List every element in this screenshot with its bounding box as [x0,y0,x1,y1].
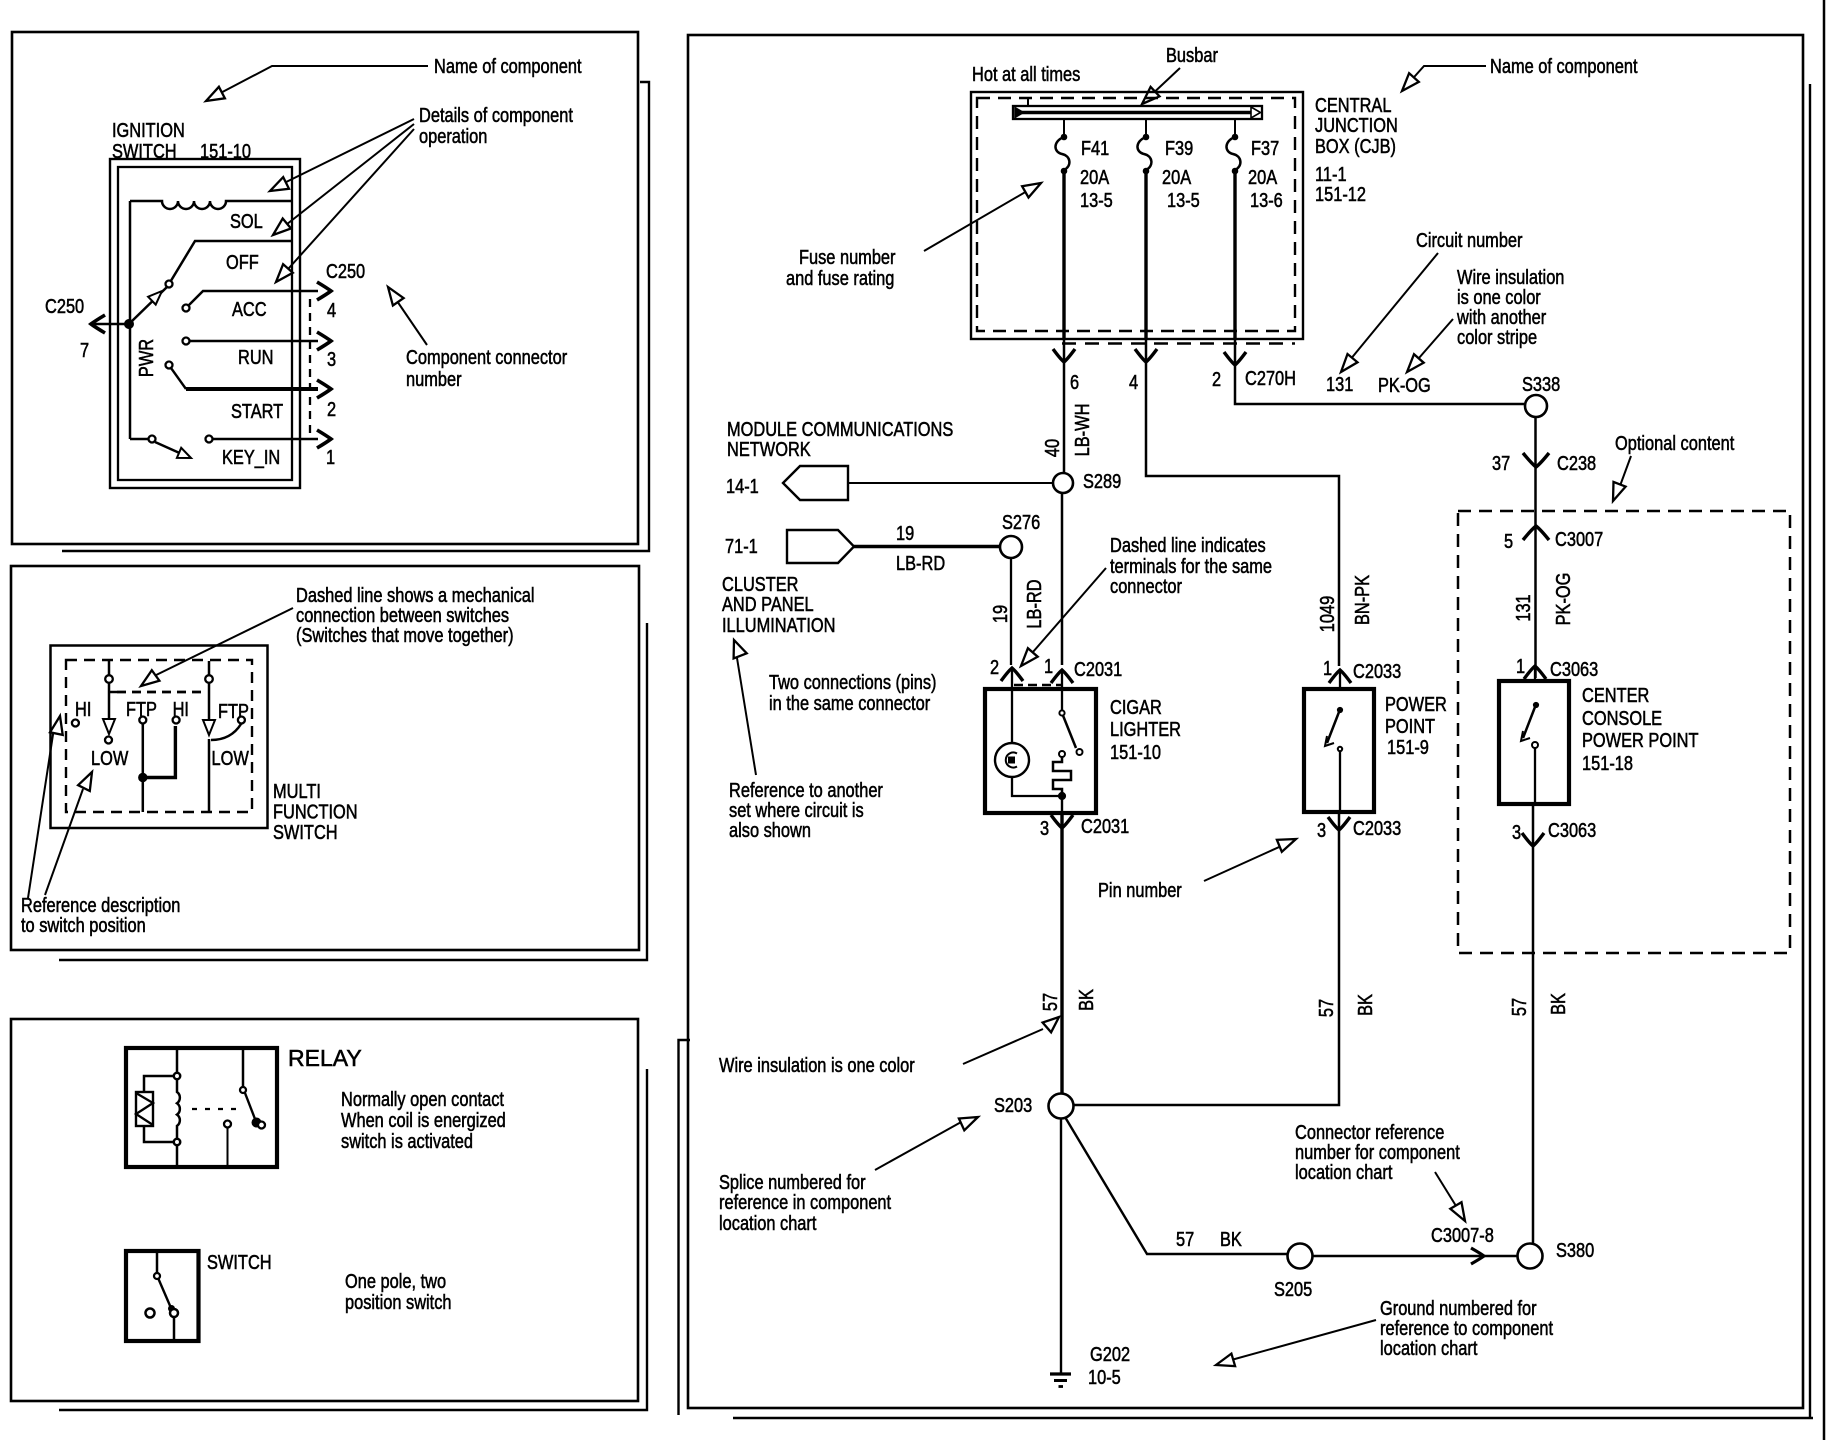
svg-text:Wire insulation is one color: Wire insulation is one color [719,1053,915,1076]
switch 2 pivot contact [205,675,213,683]
connector C250 dashed boundary [309,299,311,435]
switch 2 wiper [208,683,211,722]
svg-text:BN-PK: BN-PK [1350,575,1373,625]
svg-text:37: 37 [1492,451,1510,474]
busbar right arrow [1251,107,1261,118]
thick link wire to HI2 [143,726,176,778]
ground G202 symbol [1050,1372,1071,1375]
svg-text:OFF: OFF [226,250,259,273]
wire: F37 output inside CJB [1233,171,1236,339]
svg-text:S338: S338 [1522,372,1560,395]
svg-text:and fuse rating: and fuse rating [786,266,894,289]
splice S289 [1053,473,1073,493]
wire: KEY_IN row left [130,438,149,441]
svg-text:location chart: location chart [1295,1160,1392,1183]
contact FTP 1 [139,717,146,724]
svg-text:PWR: PWR [134,339,157,377]
relay switch common wire [242,1048,245,1087]
svg-text:G202: G202 [1090,1342,1130,1365]
svg-text:Fuse number: Fuse number [799,245,896,268]
svg-text:2: 2 [1212,367,1221,390]
busbar bar [1013,106,1262,119]
svg-text:IGNITION: IGNITION [112,118,185,141]
svg-text:JUNCTION: JUNCTION [1315,113,1398,136]
svg-text:BK: BK [1220,1227,1242,1250]
leader to C250 connector [397,301,427,345]
connector C2031 pin3 arrow [1051,815,1073,828]
relay fixed contact right [258,1122,265,1129]
svg-text:S205: S205 [1274,1277,1312,1300]
wire pin2 into cigar lighter [1011,670,1013,689]
legend box 1 frame [12,32,638,544]
START row exit arrow [317,380,331,398]
wiper arrow [148,291,162,305]
junction node cigar [1058,792,1065,799]
svg-text:C250: C250 [326,259,365,282]
leader to LOW [45,789,83,895]
fuse F37 [1234,119,1236,134]
leader to SOL [274,119,414,188]
relay NO contact lead [227,1128,229,1167]
wire: F41 output inside CJB [1062,171,1065,339]
wire: START wiper [171,368,186,389]
svg-text:1: 1 [326,445,335,468]
svg-text:SOL: SOL [230,209,263,232]
contact START [166,362,173,369]
junction node LOW [139,773,147,781]
leader to fuse [924,187,1034,251]
svg-text:10-5: 10-5 [1088,1365,1121,1388]
legend box 1 shadow page [62,82,649,551]
leader to color stripe PK-OG [1412,319,1453,366]
svg-text:C250: C250 [45,294,84,317]
wire pin1 into console power point [1534,668,1536,681]
svg-text:1: 1 [1323,656,1332,679]
contact RUN [183,338,190,345]
cigar switch wire [1061,689,1063,710]
connector arrow wire2 exit [1135,349,1157,362]
cigar switch wiper [1063,716,1076,749]
leader to ground [1224,1320,1376,1362]
svg-text:KEY_IN: KEY_IN [222,445,280,469]
svg-text:SWITCH: SWITCH [273,820,338,843]
wire: circuit 57 BK cigar to S203 (thick) [1060,815,1063,1093]
svg-text:BK: BK [1546,993,1569,1015]
svg-text:RUN: RUN [238,345,273,368]
svg-text:Two connections (pins): Two connections (pins) [769,670,937,693]
svg-text:location chart: location chart [1380,1336,1477,1359]
switch 1 wiper arrow [103,719,115,734]
wire: ACC row [189,291,318,305]
console switch [1533,702,1538,707]
svg-text:connector: connector [1110,574,1182,597]
svg-text:POINT: POINT [1385,714,1435,737]
svg-text:PK-OG: PK-OG [1551,573,1574,626]
splice S276 [1000,536,1022,558]
svg-text:3: 3 [1040,816,1049,839]
svg-text:Circuit number: Circuit number [1416,228,1523,251]
svg-text:131: 131 [1326,372,1353,395]
connector C2033 pin3 arrow [1328,817,1350,830]
multifunction switch dashed boundary [66,660,252,812]
cigar lighter lamp [995,743,1029,777]
leader to busbar [1147,68,1180,99]
leader from wire insulation text [963,1029,1043,1064]
svg-text:57: 57 [1314,999,1337,1017]
svg-text:in the same connector: in the same connector [769,691,930,714]
connector C3063 pin1 arrow [1524,666,1546,679]
connector C2031 pin2 arrow [1001,668,1023,681]
relay K1 box [126,1048,277,1167]
svg-text:151-12: 151-12 [1315,182,1366,205]
wire pin1 into power point [1339,672,1341,689]
connector C3007-8 arrow [1471,1248,1484,1264]
svg-text:13-5: 13-5 [1167,188,1200,211]
svg-text:reference in component: reference in component [719,1190,891,1213]
central junction box outline [971,92,1303,339]
wire: S205 to S380 via C3007-8 [1313,1255,1518,1258]
wire below switch 2 [208,739,211,812]
contact KEY_IN left [149,436,156,443]
connector arrow wire1 exit [1053,349,1075,362]
svg-text:BK: BK [1074,989,1097,1011]
svg-text:HI: HI [75,697,91,720]
svg-text:57: 57 [1507,998,1530,1016]
svg-text:Component connector: Component connector [406,345,567,368]
svg-text:5: 5 [1504,529,1513,552]
switch 2 wiper arrow [203,720,215,735]
relay switch wiper [245,1093,255,1119]
leader line to component name [211,66,428,98]
wire: S289 to C2031 pin1 [1061,493,1064,665]
ignition switch inner box [118,167,292,480]
svg-text:S276: S276 [1002,510,1040,533]
wire junction to pin3 [1061,796,1063,813]
svg-text:151-9: 151-9 [1387,735,1429,758]
KEY_IN wiper with arrow [155,442,184,455]
svg-text:C3007-8: C3007-8 [1431,1223,1494,1246]
wiring example panel shadow page [679,84,1814,1418]
leader to CJB name [1407,66,1486,85]
svg-text:57: 57 [1038,993,1061,1011]
svg-text:LOW: LOW [212,746,250,769]
svg-text:color stripe: color stripe [1457,325,1537,348]
relay coil top wire [144,1048,177,1092]
svg-text:C3007: C3007 [1555,527,1603,550]
svg-text:20A: 20A [1162,165,1192,188]
svg-text:ACC: ACC [232,297,267,320]
wire: circuit 131 PK-OG from C270H to S338 [1235,339,1525,404]
switch S1 contact left [146,1309,155,1318]
svg-text:20A: 20A [1080,165,1110,188]
svg-text:S289: S289 [1083,469,1121,492]
central junction box dashed boundary [977,98,1295,331]
relay mechanical dashed link [192,1108,236,1110]
leader to pin number [1204,843,1288,881]
center console power point box [1499,681,1569,804]
leader to HI [28,728,54,898]
svg-text:Dashed line indicates: Dashed line indicates [1110,533,1266,556]
fuse F39 [1145,119,1147,134]
relay coil bottom wire [144,1126,173,1142]
svg-text:151-18: 151-18 [1582,751,1633,774]
svg-text:C2033: C2033 [1353,659,1401,682]
wire: S203 to power point pin3 [1073,812,1339,1105]
switch S1 box [126,1251,199,1341]
svg-text:13-5: 13-5 [1080,188,1113,211]
legend box 2 shadow page [59,623,647,960]
svg-text:POWER POINT: POWER POINT [1582,728,1698,751]
coil SOL winding and top wire [130,201,292,209]
contact KEY_IN right [206,436,213,443]
svg-text:RELAY: RELAY [288,1045,362,1071]
wire: S338 down to center console power point [1534,417,1537,678]
splice S203 [1049,1094,1074,1119]
switch S1 contact right [170,1309,178,1317]
leader from reference text [737,658,756,775]
splice S205 [1288,1244,1313,1269]
svg-text:NETWORK: NETWORK [727,437,811,460]
contact HI 2 [173,717,180,724]
switch 1 pivot contact [105,675,113,683]
switch S1 input wire [156,1253,159,1273]
svg-text:C238: C238 [1557,451,1596,474]
RUN row exit arrow [317,332,331,350]
wire: KEY_IN row right [213,438,318,441]
svg-text:19: 19 [896,521,914,544]
legend box 2 frame [11,566,639,950]
switch 2 curved contact wire [211,724,241,740]
svg-text:1049: 1049 [1315,596,1338,632]
ACC row exit arrow [317,282,331,300]
relay coil resistor box [136,1092,153,1126]
svg-text:Optional content: Optional content [1615,431,1734,454]
svg-text:151-10: 151-10 [1110,740,1161,763]
leader to circuit number 131 [1345,253,1438,366]
svg-text:START: START [231,399,283,422]
svg-text:40: 40 [1040,439,1063,457]
leader to mechanical dashed line [148,608,293,679]
wire to lamp [1011,689,1013,743]
relay inductor winding [177,1079,180,1139]
svg-text:CONSOLE: CONSOLE [1582,706,1662,729]
legend box 3 shadow page [59,1069,647,1410]
relay wiper moving contact [252,1118,261,1127]
svg-text:POWER: POWER [1385,692,1447,715]
leader to C3007-8 [1435,1172,1461,1214]
svg-text:1: 1 [1044,654,1053,677]
power point box [1304,689,1374,812]
svg-text:BK: BK [1353,994,1376,1016]
svg-text:2: 2 [327,397,336,420]
cigar lighter box [985,689,1096,813]
optional content dashed box [1458,511,1790,953]
svg-text:One pole, two: One pole, two [345,1269,446,1292]
svg-text:location chart: location chart [719,1211,816,1234]
contact FTP 2 [238,717,245,724]
svg-text:Pin number: Pin number [1098,878,1182,901]
wire: circuit 40 LB-WH to S289 [1063,339,1066,473]
wire: F39 output inside CJB [1144,171,1147,339]
svg-text:3: 3 [1512,820,1521,843]
wire: S276 down to C2031 pin2 [1010,558,1012,665]
svg-text:13-6: 13-6 [1250,188,1283,211]
leader to ACC [280,129,414,278]
svg-text:19: 19 [988,605,1011,623]
svg-text:C3063: C3063 [1550,657,1598,680]
legend box 3 frame [11,1019,638,1401]
svg-text:(Switches that move together): (Switches that move together) [296,623,514,646]
junction node PWR [125,320,134,329]
wiper PWR to OFF [131,287,167,322]
power point switch [1337,707,1342,712]
wire: internal supply bus [129,201,132,439]
svg-text:57: 57 [1176,1227,1194,1250]
switch 1 input wire [108,661,111,675]
svg-text:ILLUMINATION: ILLUMINATION [722,613,835,636]
svg-text:4: 4 [327,298,336,321]
wire to S289 [848,482,1053,484]
svg-text:Details of component: Details of component [419,103,573,126]
svg-text:7: 7 [80,338,89,361]
relay coil bottom contact [174,1139,180,1145]
svg-text:F39: F39 [1165,136,1193,159]
wire: C250 pin7 exit [92,323,129,326]
relay coil resistor zigzag [136,1093,153,1125]
reference arrow under ILLUMINATION [734,640,747,658]
svg-text:When coil is energized: When coil is energized [341,1108,506,1131]
svg-text:131: 131 [1511,594,1534,621]
KEY_IN row exit arrow [317,430,331,448]
svg-text:71-1: 71-1 [725,534,758,557]
wire insulation arrow on BK wire [1043,1017,1059,1032]
dashed bracket same connector [1014,684,1062,686]
relay coil bottom lead [176,1145,179,1167]
svg-text:4: 4 [1129,370,1138,393]
connector C3063 pin3 arrow [1522,833,1544,846]
svg-text:to switch position: to switch position [21,913,146,936]
cigar switch contact [1077,749,1083,755]
wire pin1 into cigar lighter [1061,672,1063,689]
switch S1 pivot [154,1273,160,1279]
svg-text:C2031: C2031 [1074,657,1122,680]
svg-text:AND PANEL: AND PANEL [722,592,814,615]
wire: 1049 BN-PK from CJB to power point [1146,339,1339,666]
cigar heater element [1059,751,1065,757]
wire lamp to junction [1012,777,1062,796]
svg-text:6: 6 [1070,370,1079,393]
mechanical connection dashed line [117,691,201,694]
svg-text:also shown: also shown [729,818,811,841]
contact OFF [166,281,173,288]
svg-text:CENTER: CENTER [1582,683,1649,706]
svg-text:14-1: 14-1 [726,474,759,497]
svg-text:SWITCH: SWITCH [207,1250,272,1273]
busbar left arrow [1015,108,1024,118]
splice S380 [1518,1244,1543,1269]
svg-text:BOX (CJB): BOX (CJB) [1315,134,1396,157]
leader from splice text [875,1121,963,1170]
svg-text:Hot at all times: Hot at all times [972,62,1080,85]
relay switch pivot [240,1087,246,1093]
wire below junction [142,780,145,812]
svg-text:1: 1 [1516,654,1525,677]
svg-text:3: 3 [1317,818,1326,841]
svg-text:S203: S203 [994,1093,1032,1116]
wire: console pin3 to S380 [1532,804,1535,1244]
wiring example panel frame [688,35,1803,1408]
connector C238 arrow [1523,453,1549,467]
svg-text:LIGHTER: LIGHTER [1110,717,1181,740]
svg-text:Name of component: Name of component [1490,54,1637,77]
switch 2 input wire [208,661,211,675]
svg-text:LB-WH: LB-WH [1070,404,1093,457]
contact ACC [183,305,190,312]
svg-text:Name of component: Name of component [434,54,581,77]
leader to C2031 dashed bracket [1026,568,1106,660]
svg-text:20A: 20A [1248,165,1278,188]
connector C2031 pin1 arrow [1051,670,1073,683]
svg-text:C270H: C270H [1245,366,1296,389]
svg-text:switch is activated: switch is activated [341,1129,473,1152]
svg-text:Normally open contact: Normally open contact [341,1087,504,1110]
wire: START row (thick) [186,387,318,391]
connector C270H dashed boundary below CJB [1062,342,1295,344]
svg-text:position switch: position switch [345,1290,452,1313]
ignition switch outer box [110,159,300,488]
mechanical link tick [109,691,117,694]
svg-text:S380: S380 [1556,1238,1594,1261]
wire: RUN row [190,340,318,343]
svg-text:LB-RD: LB-RD [896,551,945,574]
connector arrow wire3 exit C270H [1224,352,1246,365]
switch S1 wiper [159,1279,172,1308]
svg-text:C2033: C2033 [1353,816,1401,839]
svg-text:2: 2 [990,655,999,678]
switch 1 lower contact [105,737,112,744]
svg-text:F41: F41 [1081,136,1109,159]
switch S1 output wire [173,1317,176,1341]
switch 1 wiper [108,683,111,721]
svg-text:3: 3 [327,347,336,370]
svg-text:C2031: C2031 [1081,814,1129,837]
splice S338 [1525,395,1547,417]
contact HI 1 [72,720,79,727]
svg-text:LB-RD: LB-RD [1022,579,1045,628]
svg-text:C3063: C3063 [1548,818,1596,841]
connector C2033 pin1 arrow [1329,670,1351,683]
wire FTP1 down [142,723,145,774]
svg-text:PK-OG: PK-OG [1378,373,1431,396]
svg-text:F37: F37 [1251,136,1279,159]
multifunction switch box [51,646,268,829]
C250 pin7 exit arrow [91,315,105,333]
relay coil top contact [174,1073,180,1079]
relay normally-open contact [224,1121,231,1128]
wire: OFF row [169,241,292,284]
connector C3007 arrow [1523,526,1549,540]
svg-text:CIGAR: CIGAR [1110,695,1162,718]
svg-text:LOW: LOW [91,746,129,769]
leader to OFF [277,124,414,232]
off-page connector MODULE COMMUNICATIONS NETWORK 14-1 [783,466,848,500]
leader to optional box [1617,456,1631,494]
svg-text:Busbar: Busbar [1166,43,1218,66]
wire: S203 to S205 [1065,1117,1288,1254]
svg-text:operation: operation [419,124,487,147]
wire: S203 to ground G202 [1060,1119,1062,1375]
wire: circuit 19 LB-RD to S276 (thick) [854,545,1000,548]
